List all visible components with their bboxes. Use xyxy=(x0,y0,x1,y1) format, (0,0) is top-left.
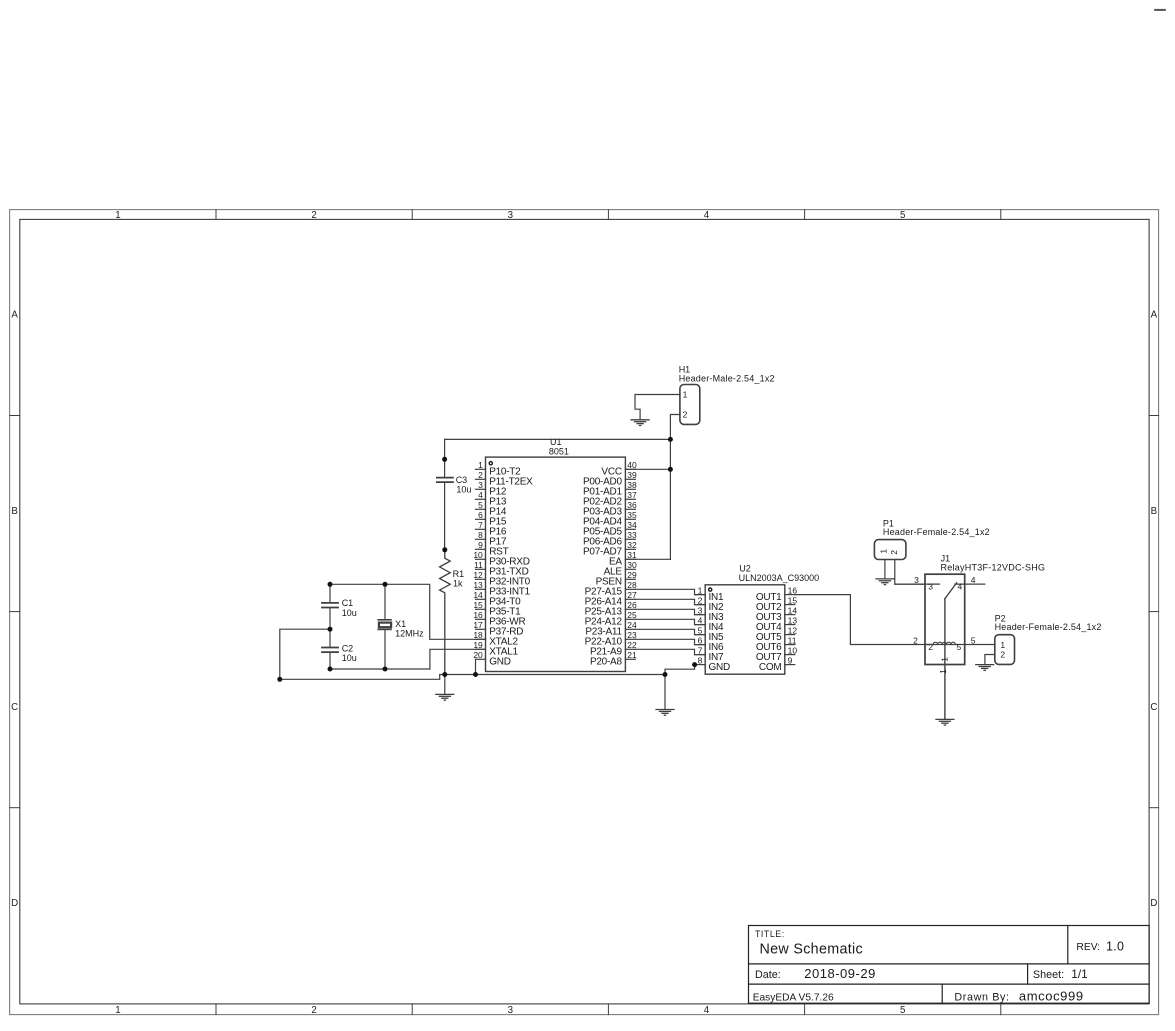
wire: OUT1 to relay pin 2 xyxy=(795,595,933,645)
svg-text:1/1: 1/1 xyxy=(1071,967,1087,981)
wire: H1 pin1 to ground xyxy=(635,395,680,420)
svg-text:27: 27 xyxy=(627,590,637,600)
svg-text:5: 5 xyxy=(956,642,961,652)
wire: H1 pin2 drop to EA xyxy=(670,415,680,560)
svg-text:EasyEDA V5.7.26: EasyEDA V5.7.26 xyxy=(753,992,834,1003)
node: C3 top segment joint xyxy=(442,457,447,462)
svg-text:30: 30 xyxy=(627,560,637,570)
wire: P25-A13 to IN3 xyxy=(635,609,705,614)
J1 pin 5 xyxy=(965,644,995,646)
svg-text:8: 8 xyxy=(698,655,703,665)
svg-text:2: 2 xyxy=(913,635,918,645)
node: left rail corner xyxy=(277,677,282,682)
svg-text:GND: GND xyxy=(709,662,731,673)
wire: P24-A12 to IN4 xyxy=(635,619,705,624)
svg-text:C1: C1 xyxy=(342,598,354,608)
svg-text:24: 24 xyxy=(627,620,637,630)
svg-text:15: 15 xyxy=(473,600,483,610)
svg-text:D: D xyxy=(1150,898,1157,909)
ground (P1) xyxy=(875,579,894,585)
svg-text:1: 1 xyxy=(115,210,120,221)
svg-text:6: 6 xyxy=(698,635,703,645)
svg-text:3: 3 xyxy=(508,1005,513,1016)
svg-text:3: 3 xyxy=(508,210,513,221)
svg-text:25: 25 xyxy=(627,610,637,620)
ground (H1 pin1) xyxy=(631,420,650,426)
node: X1 bottom xyxy=(383,667,388,672)
svg-text:3: 3 xyxy=(928,582,933,592)
svg-text:8: 8 xyxy=(478,530,483,540)
svg-text:Header-Female-2.54_1x2: Header-Female-2.54_1x2 xyxy=(883,527,990,537)
wire: oscillator bottom net xyxy=(330,668,430,670)
svg-text:13: 13 xyxy=(473,580,483,590)
svg-text:1: 1 xyxy=(1000,640,1005,650)
svg-text:1: 1 xyxy=(939,657,949,662)
svg-text:New Schematic: New Schematic xyxy=(760,942,863,958)
J1 switch pole pin 1 xyxy=(944,599,946,719)
svg-text:5: 5 xyxy=(698,625,703,635)
svg-text:8051: 8051 xyxy=(549,446,569,456)
svg-text:12: 12 xyxy=(788,625,798,635)
svg-text:37: 37 xyxy=(627,490,637,500)
svg-text:7: 7 xyxy=(698,645,703,655)
wire: VCC pin 40 xyxy=(625,468,670,470)
svg-text:17: 17 xyxy=(473,620,483,630)
svg-text:REV:: REV: xyxy=(1076,942,1100,953)
svg-text:1: 1 xyxy=(683,390,688,400)
svg-text:34: 34 xyxy=(627,520,637,530)
svg-text:36: 36 xyxy=(627,500,637,510)
wire: P1 pin1 to ground xyxy=(884,560,886,579)
wire: oscillator top net xyxy=(330,584,486,639)
capacitor C3 10u xyxy=(436,439,471,549)
J1 pin 4 xyxy=(955,583,985,585)
svg-text:4: 4 xyxy=(971,575,976,585)
svg-text:28: 28 xyxy=(627,580,637,590)
svg-text:Header-Female-2.54_1x2: Header-Female-2.54_1x2 xyxy=(995,622,1102,632)
svg-text:4: 4 xyxy=(704,210,710,221)
svg-text:GND: GND xyxy=(489,657,511,668)
svg-text:1: 1 xyxy=(115,1005,120,1016)
node: H1 pin2 / top wire xyxy=(668,437,673,442)
svg-text:5: 5 xyxy=(478,500,483,510)
svg-text:38: 38 xyxy=(627,480,637,490)
svg-text:3: 3 xyxy=(698,605,703,615)
svg-text:D: D xyxy=(11,898,18,909)
svg-text:40: 40 xyxy=(627,460,637,470)
svg-text:C3: C3 xyxy=(456,475,468,485)
svg-text:4: 4 xyxy=(698,615,703,625)
svg-text:26: 26 xyxy=(627,600,637,610)
svg-text:COM: COM xyxy=(759,662,782,673)
svg-text:R1: R1 xyxy=(453,569,465,579)
svg-text:12MHz: 12MHz xyxy=(395,629,424,639)
svg-text:2: 2 xyxy=(478,470,483,480)
node: U1 GND / rail xyxy=(473,672,478,677)
svg-text:16: 16 xyxy=(473,610,483,620)
svg-text:B: B xyxy=(1151,506,1157,517)
wire: P27-A15 to IN1 xyxy=(635,589,705,594)
svg-text:33: 33 xyxy=(627,530,637,540)
svg-text:29: 29 xyxy=(627,570,637,580)
svg-text:C: C xyxy=(11,702,18,713)
svg-text:14: 14 xyxy=(788,605,798,615)
svg-text:15: 15 xyxy=(788,595,798,605)
svg-text:1: 1 xyxy=(938,669,948,674)
svg-text:2: 2 xyxy=(1000,650,1005,660)
svg-text:10u: 10u xyxy=(456,485,471,495)
capacitor C2 10u xyxy=(321,629,357,669)
wire: XTAL1 to bottom net xyxy=(430,649,486,669)
sheet frame xyxy=(10,210,1159,1016)
wire: main-rail ground stem xyxy=(444,675,446,695)
svg-text:3: 3 xyxy=(914,575,919,585)
svg-text:20: 20 xyxy=(473,650,483,660)
svg-text:18: 18 xyxy=(473,630,483,640)
svg-text:5: 5 xyxy=(971,635,976,645)
svg-text:1: 1 xyxy=(698,585,703,595)
ground (U2 GND) xyxy=(655,710,674,716)
connector H1 Header-Male-2.54_1x2 xyxy=(679,365,775,425)
svg-text:1k: 1k xyxy=(453,579,463,589)
svg-text:10: 10 xyxy=(473,550,483,560)
node: C2 bottom xyxy=(328,667,333,672)
svg-text:B: B xyxy=(11,506,17,517)
svg-text:3: 3 xyxy=(478,480,483,490)
wire: P22-A10 to IN6 xyxy=(635,639,705,644)
svg-text:A: A xyxy=(11,310,18,321)
ground (main rail) xyxy=(435,694,454,700)
wire: P26-A14 to IN2 xyxy=(635,599,705,604)
window dash mark xyxy=(1154,9,1166,11)
svg-text:9: 9 xyxy=(788,655,793,665)
relay J1 RelayHT3F-12VDC-SHG xyxy=(895,554,1045,720)
svg-text:19: 19 xyxy=(473,640,483,650)
svg-text:9: 9 xyxy=(478,540,483,550)
svg-text:1: 1 xyxy=(478,460,483,470)
wire: U2 GND jog xyxy=(665,665,695,675)
svg-text:7: 7 xyxy=(478,520,483,530)
svg-text:TITLE:: TITLE: xyxy=(755,929,785,939)
svg-text:5: 5 xyxy=(900,1005,905,1016)
wire: P21-A9 to IN7 xyxy=(635,649,705,654)
svg-text:31: 31 xyxy=(627,550,637,560)
wire: C1/C2 mid tap to left xyxy=(280,629,330,679)
wire: P1 pin2 to relay pin 3 xyxy=(895,560,925,585)
svg-text:2: 2 xyxy=(698,595,703,605)
IC U2 ULN2003A xyxy=(695,563,820,674)
wire: P2 pin2 to ground xyxy=(985,655,995,665)
connector P2 Header-Female-2.54_1x2 xyxy=(995,613,1102,664)
capacitor C1 10u xyxy=(321,584,357,629)
ground (relay pole) xyxy=(935,719,954,725)
svg-text:22: 22 xyxy=(627,640,637,650)
title block xyxy=(749,926,1150,1004)
svg-text:RelayHT3F-12VDC-SHG: RelayHT3F-12VDC-SHG xyxy=(941,563,1046,573)
svg-text:2: 2 xyxy=(683,410,688,420)
svg-text:4: 4 xyxy=(478,490,483,500)
svg-text:13: 13 xyxy=(788,615,798,625)
svg-text:11: 11 xyxy=(474,560,483,570)
svg-text:35: 35 xyxy=(627,510,637,520)
svg-text:2: 2 xyxy=(311,210,316,221)
svg-text:2018-09-29: 2018-09-29 xyxy=(804,966,876,981)
svg-text:2: 2 xyxy=(889,550,899,555)
node: VCC junction xyxy=(668,467,673,472)
ground (P2) xyxy=(975,665,994,671)
svg-text:A: A xyxy=(1151,310,1158,321)
svg-text:10: 10 xyxy=(788,645,798,655)
svg-text:5: 5 xyxy=(900,210,905,221)
svg-text:10u: 10u xyxy=(342,608,357,618)
wire: top net C3 to H1/VCC xyxy=(445,438,671,440)
svg-text:11: 11 xyxy=(788,635,797,645)
svg-text:23: 23 xyxy=(627,630,637,640)
svg-text:Drawn By:: Drawn By: xyxy=(954,991,1009,1003)
connector P1 Header-Female-2.54_1x2 xyxy=(874,518,989,559)
node: C1 top xyxy=(328,582,333,587)
svg-text:Header-Male-2.54_1x2: Header-Male-2.54_1x2 xyxy=(679,373,775,383)
J1 pin 3 xyxy=(895,583,940,585)
wire: U1 GND pin 20 drop xyxy=(475,659,477,674)
J1 switch blade xyxy=(945,583,957,599)
svg-text:21: 21 xyxy=(627,650,637,660)
svg-text:4: 4 xyxy=(957,582,962,592)
svg-text:C2: C2 xyxy=(342,643,354,653)
svg-text:2: 2 xyxy=(928,642,933,652)
crystal X1 12MHz xyxy=(377,584,424,669)
svg-text:U2: U2 xyxy=(739,563,751,573)
svg-text:1.0: 1.0 xyxy=(1106,939,1124,953)
svg-text:10u: 10u xyxy=(342,653,357,663)
IC U1 8051 xyxy=(473,437,637,671)
svg-text:X1: X1 xyxy=(395,619,406,629)
wire: ground rail xyxy=(280,675,665,680)
svg-text:39: 39 xyxy=(627,470,637,480)
svg-text:14: 14 xyxy=(473,590,483,600)
wire: EA pin 31 xyxy=(625,558,670,560)
node: U2 pin 8 xyxy=(692,662,697,667)
svg-text:ULN2003A_C93000: ULN2003A_C93000 xyxy=(739,573,820,583)
node: R1 bottom / rail xyxy=(442,672,447,677)
node: rail / U2 GND xyxy=(663,672,668,677)
svg-text:Sheet:: Sheet: xyxy=(1033,969,1064,981)
node: X1 top xyxy=(383,582,388,587)
wire: U2 ground stem xyxy=(664,675,666,710)
svg-text:4: 4 xyxy=(704,1005,710,1016)
svg-text:2: 2 xyxy=(311,1005,316,1016)
resistor R1 1k xyxy=(440,550,465,675)
node: RST / R1 top xyxy=(442,547,447,552)
svg-text:Date:: Date: xyxy=(755,969,781,981)
svg-text:1: 1 xyxy=(879,549,889,554)
J1 coil xyxy=(933,642,955,644)
svg-text:amcoc999: amcoc999 xyxy=(1019,989,1084,1004)
svg-text:12: 12 xyxy=(473,570,483,580)
svg-text:6: 6 xyxy=(478,510,483,520)
svg-text:P20-A8: P20-A8 xyxy=(590,657,623,668)
node: C1-C2 mid tap xyxy=(328,627,333,632)
svg-text:16: 16 xyxy=(788,585,798,595)
svg-text:C: C xyxy=(1150,702,1157,713)
svg-text:32: 32 xyxy=(627,540,637,550)
wire: P23-A11 to IN5 xyxy=(635,629,705,634)
